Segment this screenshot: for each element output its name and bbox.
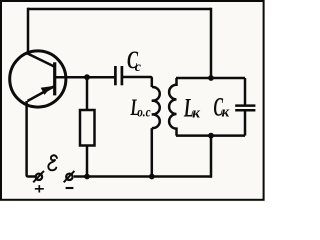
svg-text:к: к (222, 105, 230, 121)
resistor R1 (80, 110, 95, 146)
label C_c (127, 46, 142, 75)
inductor L_k (tank coil) (169, 78, 176, 136)
node: feedback coil bottom junction (149, 174, 155, 180)
capacitor C_k (235, 78, 255, 136)
transistor VT1 (PNP) (10, 51, 66, 107)
wire: tank bottom rail (176, 134, 245, 137)
wire: resistor top lead (86, 77, 89, 110)
node: resistor bottom junction (84, 174, 90, 180)
wire: bottom ground rail (74, 175, 212, 178)
label + (35, 185, 44, 192)
wire: emitter lead down and to + terminal (27, 101, 35, 177)
label - (66, 187, 74, 189)
wire: collector drop from top rail (27, 8, 30, 54)
label C_k (214, 92, 230, 122)
wire: tank bottom to ground rail (210, 136, 213, 178)
wire: base lead (55, 76, 115, 79)
label L_k (183, 94, 200, 123)
wire: resistor bottom lead (86, 146, 89, 177)
terminal: - input (64, 171, 75, 182)
terminal: + input (33, 171, 44, 182)
wire: top supply rail (28, 8, 211, 11)
inductor L_o.c (feedback coil) (152, 87, 160, 128)
node: base / resistor junction (84, 74, 90, 80)
capacitor C_c plates (115, 66, 122, 85)
label L_o.c (130, 96, 151, 121)
node: tank top junction (208, 75, 214, 81)
wire: coil bottom lead (151, 128, 154, 176)
node: tank bottom junction (208, 133, 214, 139)
wire: tank top rail (176, 77, 245, 80)
svg-text:c: c (135, 60, 142, 75)
wire: right drop from top rail (210, 8, 213, 78)
svg-text:о.с: о.с (137, 105, 151, 120)
label EMF script E (48, 155, 57, 170)
wire: C_c to feedback coil (123, 77, 152, 87)
svg-text:к: к (192, 106, 200, 122)
